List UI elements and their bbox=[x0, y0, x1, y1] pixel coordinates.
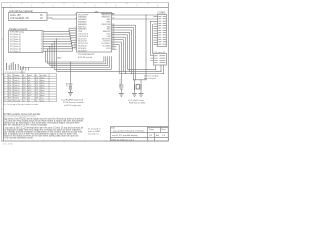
svg-text:to RC2 output pin: to RC2 output pin bbox=[64, 104, 82, 107]
svg-text:data+ctrl pins: data+ctrl pins bbox=[144, 77, 156, 80]
svg-text:with the distribution of this: with the distribution of this monitor pa… bbox=[3, 124, 48, 127]
svg-text:LCD backlight +5V: LCD backlight +5V bbox=[10, 17, 30, 20]
svg-text:rev-01 PIC parallel display: rev-01 PIC parallel display bbox=[112, 134, 138, 137]
svg-text:ups-monitor lcd panel schemati: ups-monitor lcd panel schematic bbox=[113, 130, 145, 133]
svg-text:5V dc buzzer module: 5V dc buzzer module bbox=[63, 101, 84, 104]
svg-text:RC5/SDO: RC5/SDO bbox=[78, 50, 88, 52]
svg-text:R/W tied to GND: R/W tied to GND bbox=[129, 102, 146, 105]
svg-text:LCD (4x20 char): LCD (4x20 char) bbox=[128, 99, 144, 102]
svg-text:LCD Vdd bus (optional): LCD Vdd bus (optional) bbox=[9, 10, 33, 13]
svg-text:LCD+ +5V: LCD+ +5V bbox=[10, 15, 21, 17]
svg-text:CONN1: CONN1 bbox=[158, 13, 167, 15]
svg-text:PIC16F876A-I/SP: PIC16F876A-I/SP bbox=[78, 53, 95, 56]
svg-text:Data 0: Data 0 bbox=[14, 76, 21, 79]
svg-text:(DIP-28 socket): (DIP-28 socket) bbox=[78, 56, 93, 59]
svg-text:Data 2: Data 2 bbox=[14, 81, 21, 84]
svg-text:1 2 3 4 5 6 7 8 9 10 11: 1 2 3 4 5 6 7 8 9 10 11 bbox=[5, 72, 26, 74]
svg-text:to LCD module: to LCD module bbox=[144, 75, 159, 78]
svg-text:rev 1.0 file: rev 1.0 file bbox=[3, 143, 14, 146]
svg-text:Ground: Ground bbox=[14, 100, 21, 102]
svg-text:gnd: gnd bbox=[41, 100, 44, 102]
svg-text:Select: Select bbox=[14, 97, 20, 100]
svg-text:NOTES (suitable shown with det: NOTES (suitable shown with details) bbox=[3, 113, 41, 116]
svg-text:LCD ALARM (optional): LCD ALARM (optional) bbox=[61, 99, 83, 102]
svg-text:in the normal operation mode.: in the normal operation mode. bbox=[3, 137, 34, 140]
svg-text:+5V: +5V bbox=[94, 12, 99, 14]
svg-text:Sheet 1 of 1: Sheet 1 of 1 bbox=[122, 138, 135, 141]
svg-text:Pin 1 is at top of the pin hea: Pin 1 is at top of the pin header as see… bbox=[3, 103, 38, 106]
svg-text:Page: Page bbox=[149, 129, 155, 131]
svg-text:GND: GND bbox=[57, 58, 62, 60]
svg-text:LCD conn J2: LCD conn J2 bbox=[154, 52, 166, 54]
svg-text:Data 6: Data 6 bbox=[14, 92, 21, 95]
svg-text:via 10k res: via 10k res bbox=[88, 133, 99, 136]
svg-text:Data 4: Data 4 bbox=[14, 87, 21, 90]
svg-text:C: C bbox=[2, 108, 4, 111]
svg-text:D7 (Data 7): D7 (Data 7) bbox=[10, 50, 21, 53]
svg-text:C1 100n: C1 100n bbox=[119, 79, 121, 87]
